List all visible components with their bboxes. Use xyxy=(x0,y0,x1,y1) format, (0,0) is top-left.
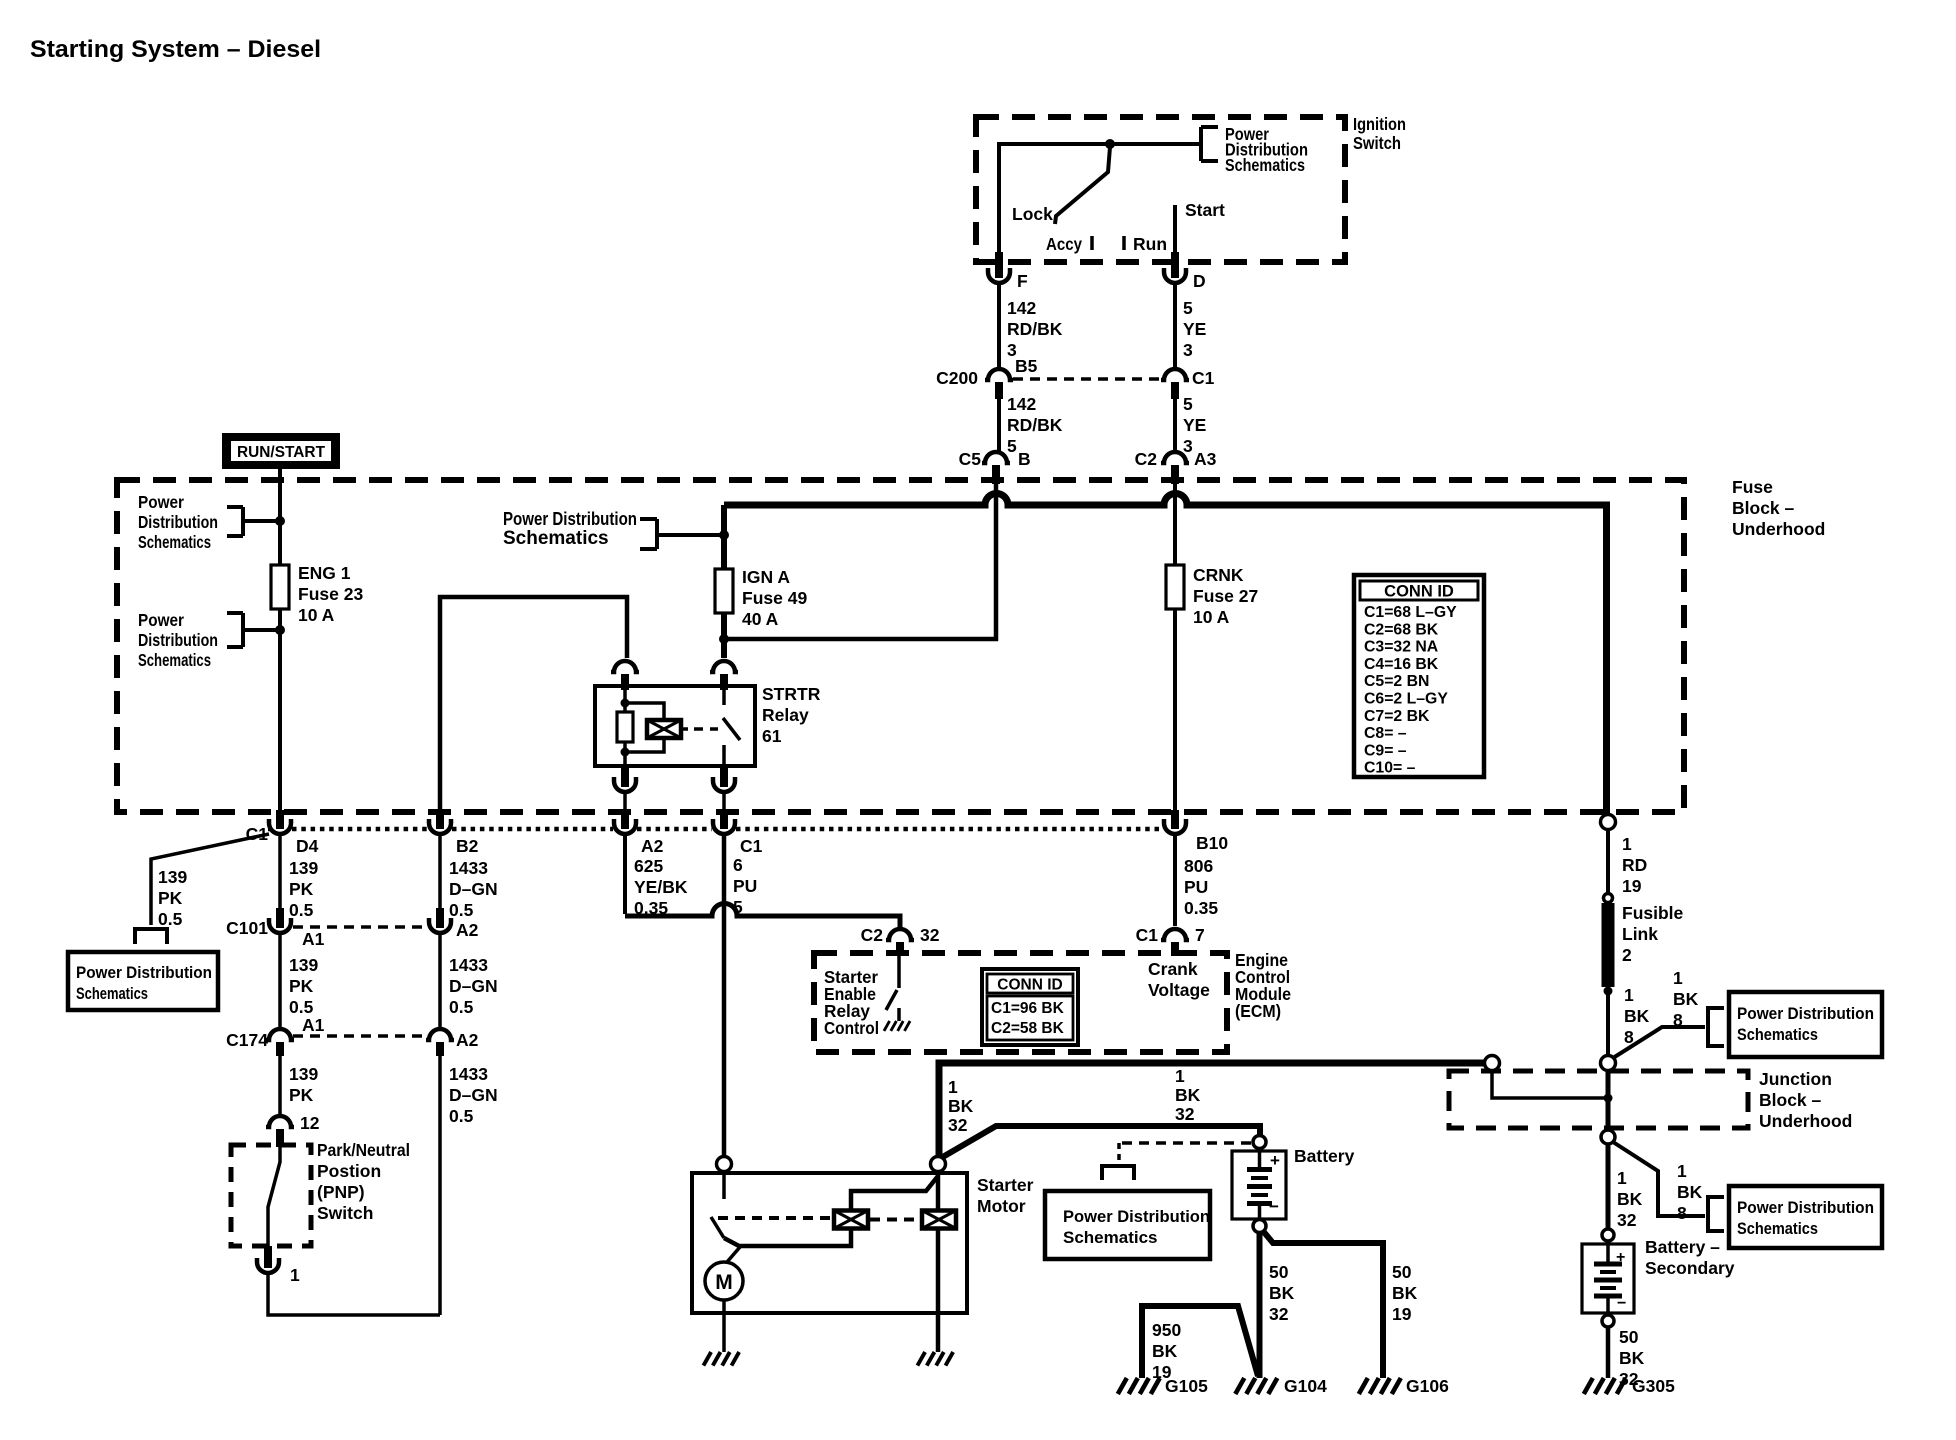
svg-text:Power Distribution: Power Distribution xyxy=(1737,1198,1874,1217)
wire C174 to PNP xyxy=(278,1056,282,1115)
svg-text:6: 6 xyxy=(733,855,743,875)
svg-text:C7=2 BK: C7=2 BK xyxy=(1364,708,1430,725)
svg-text:Battery –: Battery – xyxy=(1645,1237,1720,1257)
connector C2 (ECM) xyxy=(886,929,914,940)
wire ignition feed xyxy=(999,144,1201,262)
svg-text:D–GN: D–GN xyxy=(449,976,498,996)
svg-text:Underhood: Underhood xyxy=(1732,519,1825,539)
wire solenoid ground xyxy=(936,1228,941,1352)
svg-text:40 A: 40 A xyxy=(742,609,779,629)
node junction block left xyxy=(1485,1056,1500,1071)
wire PNP out xyxy=(268,1274,440,1315)
svg-text:Fuse: Fuse xyxy=(1732,477,1773,497)
svg-text:Control: Control xyxy=(824,1018,879,1038)
starter link dashes xyxy=(718,1216,832,1220)
wire relay C1 down xyxy=(722,792,726,810)
svg-text:BK: BK xyxy=(1152,1341,1178,1361)
pds bracket 6 xyxy=(135,929,167,944)
junction dot ENG1 top xyxy=(275,516,285,526)
connector 1 xyxy=(264,1246,272,1268)
svg-text:G105: G105 xyxy=(1165,1376,1208,1396)
svg-text:C6=2 L–GY: C6=2 L–GY xyxy=(1364,691,1448,708)
svg-text:B5: B5 xyxy=(1015,356,1038,376)
svg-text:PU: PU xyxy=(733,876,757,896)
svg-text:G106: G106 xyxy=(1406,1376,1449,1396)
svg-text:RD/BK: RD/BK xyxy=(1007,319,1063,339)
svg-text:C174: C174 xyxy=(226,1030,268,1050)
wire C101 to C174 left xyxy=(278,933,282,1028)
svg-text:BK: BK xyxy=(1269,1283,1295,1303)
battery2 wire top xyxy=(1606,1240,1610,1262)
svg-text:32: 32 xyxy=(1269,1304,1289,1324)
power distribution schematics bracket (ignition) xyxy=(1201,125,1218,129)
svg-text:Battery: Battery xyxy=(1294,1146,1355,1166)
node battery2 top xyxy=(1602,1229,1614,1241)
relay coil bypass xyxy=(625,703,664,720)
wire C101 to C174 right xyxy=(438,933,442,1028)
svg-text:C4=16 BK: C4=16 BK xyxy=(1364,656,1439,673)
svg-text:Fuse 23: Fuse 23 xyxy=(298,584,363,604)
ground starter solenoid xyxy=(917,1352,925,1366)
svg-text:Fuse 27: Fuse 27 xyxy=(1193,586,1258,606)
svg-text:Schematics: Schematics xyxy=(138,650,211,670)
svg-text:(ECM): (ECM) xyxy=(1235,1001,1281,1021)
svg-text:+: + xyxy=(1270,1151,1280,1170)
pds bracket 2 xyxy=(227,611,243,615)
svg-text:−: − xyxy=(1269,1197,1279,1216)
svg-text:Ignition: Ignition xyxy=(1353,114,1406,134)
svg-text:B2: B2 xyxy=(456,836,479,856)
relay out C1 pin xyxy=(720,766,728,787)
svg-text:50: 50 xyxy=(1392,1262,1412,1282)
svg-text:1: 1 xyxy=(1624,985,1634,1005)
junction dot relay feed xyxy=(719,634,729,644)
svg-text:(PNP): (PNP) xyxy=(317,1182,365,1202)
battery plates xyxy=(1247,1167,1272,1172)
svg-text:1: 1 xyxy=(1175,1066,1185,1086)
relay coil xbox xyxy=(647,720,681,738)
svg-text:PU: PU xyxy=(1184,877,1208,897)
svg-text:0.5: 0.5 xyxy=(449,900,474,920)
node battery negative xyxy=(1253,1220,1266,1233)
svg-text:Switch: Switch xyxy=(1353,133,1401,153)
svg-text:BK: BK xyxy=(1673,989,1699,1009)
connector A2 xyxy=(621,810,629,829)
connector D xyxy=(1164,268,1186,283)
svg-text:Schematics: Schematics xyxy=(1063,1228,1158,1247)
wire branch to pds 2 xyxy=(1613,1142,1705,1216)
svg-text:10 A: 10 A xyxy=(1193,607,1230,627)
svg-text:C2: C2 xyxy=(861,925,884,945)
power distribution schematics box (r2) xyxy=(1729,1186,1882,1248)
relay out A2 pin xyxy=(621,766,629,787)
svg-text:BK: BK xyxy=(1624,1006,1650,1026)
svg-text:C3=32 NA: C3=32 NA xyxy=(1364,639,1438,656)
wire relay A2 down xyxy=(623,792,627,810)
connector C101 A2 xyxy=(436,908,444,928)
svg-text:Power: Power xyxy=(138,492,184,512)
relay coil wire top xyxy=(623,690,627,712)
svg-text:0.5: 0.5 xyxy=(289,900,314,920)
svg-text:50: 50 xyxy=(1619,1327,1639,1347)
svg-text:32: 32 xyxy=(1617,1210,1637,1230)
relay box xyxy=(595,686,755,766)
fuse block bottom connector row xyxy=(268,827,271,832)
svg-text:Power Distribution: Power Distribution xyxy=(76,964,212,982)
fuse block underhood box xyxy=(117,480,1684,812)
svg-text:Schematics: Schematics xyxy=(1225,155,1305,175)
pds bracket 1 xyxy=(227,505,243,509)
junction block box xyxy=(1449,1071,1748,1128)
connector 12 xyxy=(266,1116,294,1127)
svg-text:B10: B10 xyxy=(1196,833,1228,853)
svg-text:Starting System – Diesel: Starting System – Diesel xyxy=(30,36,321,63)
relay link dashes xyxy=(694,727,718,731)
battery2 plates xyxy=(1594,1262,1622,1267)
connector B10 xyxy=(1171,810,1179,829)
svg-text:0.5: 0.5 xyxy=(449,1106,474,1126)
battery wire top xyxy=(1258,1148,1262,1167)
svg-text:PK: PK xyxy=(289,976,314,996)
ECM ground xyxy=(884,1021,890,1031)
svg-text:3: 3 xyxy=(1183,340,1193,360)
svg-text:BK: BK xyxy=(1677,1182,1703,1202)
svg-text:32: 32 xyxy=(1175,1104,1195,1124)
battery box xyxy=(1232,1151,1286,1219)
svg-text:2: 2 xyxy=(1622,945,1632,965)
connector F pin xyxy=(995,252,1003,278)
svg-text:19: 19 xyxy=(1622,876,1642,896)
relay switch lower stub xyxy=(722,745,726,766)
wire C1 down xyxy=(1173,399,1177,451)
svg-text:10 A: 10 A xyxy=(298,605,335,625)
wire 950 BK 19 xyxy=(1142,1306,1258,1378)
connector C200 B5 xyxy=(985,369,1013,380)
svg-text:BK: BK xyxy=(948,1096,974,1116)
svg-text:C5=2 BN: C5=2 BN xyxy=(1364,673,1429,690)
wire battery2 to G305 xyxy=(1606,1326,1611,1378)
junction dot IGN A xyxy=(719,530,729,540)
svg-text:A1: A1 xyxy=(302,1015,325,1035)
ground G305 xyxy=(1584,1378,1593,1394)
svg-text:625: 625 xyxy=(634,856,663,876)
wire junction to battery2 xyxy=(1606,1144,1611,1231)
svg-text:+: + xyxy=(1616,1249,1625,1266)
tick Accy xyxy=(1090,236,1094,250)
svg-text:0.5: 0.5 xyxy=(449,997,474,1017)
svg-text:C1: C1 xyxy=(1192,368,1215,388)
connector C1 (ECM) xyxy=(1161,929,1189,940)
svg-text:CRNK: CRNK xyxy=(1193,565,1244,585)
wire 6 PU down xyxy=(722,835,727,1156)
CONN ID table xyxy=(1354,575,1484,777)
starter wire to coil xyxy=(724,1228,851,1246)
svg-text:Schematics: Schematics xyxy=(76,985,148,1003)
power distribution schematics box (left) xyxy=(68,952,218,1010)
svg-text:32: 32 xyxy=(948,1115,968,1135)
RUN/START tag xyxy=(222,433,340,469)
svg-text:Schematics: Schematics xyxy=(503,528,609,549)
pds bracket 7 xyxy=(1708,1008,1724,1046)
svg-text:50: 50 xyxy=(1269,1262,1289,1282)
svg-text:PK: PK xyxy=(289,879,314,899)
heavy wire 1 BK 32 (starter to junction block) xyxy=(939,1063,1492,1164)
ignition switch blade xyxy=(1055,147,1110,224)
fusible link 2 xyxy=(1602,903,1615,987)
fuse CRNK xyxy=(1166,565,1184,609)
ignition switch box xyxy=(976,117,1345,262)
node fuse block output xyxy=(1601,815,1616,830)
wire C5 branch xyxy=(727,484,996,639)
ground starter motor xyxy=(703,1352,711,1366)
connector C1 xyxy=(720,810,728,829)
svg-text:IGN A: IGN A xyxy=(742,567,790,587)
svg-text:A1: A1 xyxy=(302,929,325,949)
svg-text:Junction: Junction xyxy=(1759,1069,1832,1089)
svg-text:F: F xyxy=(1017,271,1028,291)
svg-text:Run: Run xyxy=(1133,234,1167,254)
svg-text:1433: 1433 xyxy=(449,858,488,878)
svg-text:19: 19 xyxy=(1392,1304,1412,1324)
wire 1433 down xyxy=(438,1056,442,1315)
starter coil top wire xyxy=(851,1176,938,1211)
power distribution schematics box (r1) xyxy=(1729,992,1882,1057)
relay coil connector xyxy=(611,661,639,672)
svg-text:Motor: Motor xyxy=(977,1196,1026,1216)
svg-text:Fuse 49: Fuse 49 xyxy=(742,588,807,608)
junction dot ignition xyxy=(1105,139,1115,149)
connector C174 A2 xyxy=(426,1029,454,1040)
svg-text:RUN/START: RUN/START xyxy=(237,444,325,461)
svg-text:32: 32 xyxy=(920,925,940,945)
svg-text:Fusible: Fusible xyxy=(1622,903,1684,923)
svg-text:142: 142 xyxy=(1007,394,1036,414)
fuse IGN A xyxy=(715,569,733,613)
svg-text:D–GN: D–GN xyxy=(449,879,498,899)
svg-text:G305: G305 xyxy=(1632,1376,1675,1396)
junction dot jb xyxy=(1604,1094,1613,1103)
svg-text:BK: BK xyxy=(1617,1189,1643,1209)
node starter B+ xyxy=(931,1157,946,1172)
svg-text:M: M xyxy=(715,1271,733,1294)
svg-text:G104: G104 xyxy=(1284,1376,1327,1396)
ECM box xyxy=(814,953,1227,1052)
wire bracket2 xyxy=(243,628,280,632)
svg-text:C9= –: C9= – xyxy=(1364,742,1407,759)
ground G106 xyxy=(1359,1378,1368,1394)
connector C1/D4 xyxy=(276,810,284,829)
connector D pin xyxy=(1171,252,1179,278)
wire battery neg to G104 xyxy=(1257,1232,1263,1378)
svg-text:C2=58 BK: C2=58 BK xyxy=(991,1020,1065,1037)
svg-text:Power Distribution: Power Distribution xyxy=(503,509,637,529)
svg-text:Start: Start xyxy=(1185,200,1225,220)
wire B10 to ECM C1 xyxy=(1173,835,1177,926)
wire A2 down xyxy=(623,835,627,914)
wire B2 up xyxy=(440,597,627,810)
wire RUN/START to fuse xyxy=(278,469,282,565)
wire ENG1 down xyxy=(278,609,282,812)
node starter solenoid xyxy=(717,1157,732,1172)
svg-text:CONN ID: CONN ID xyxy=(997,977,1062,994)
svg-text:A2: A2 xyxy=(641,836,664,856)
pds bracket 8 xyxy=(1708,1197,1724,1231)
svg-text:Voltage: Voltage xyxy=(1148,980,1210,1000)
wire D down xyxy=(1173,283,1177,368)
fuse ENG1 xyxy=(271,565,289,609)
svg-text:8: 8 xyxy=(1673,1010,1683,1030)
svg-text:C2: C2 xyxy=(1135,449,1158,469)
wire motor ground xyxy=(722,1300,726,1352)
connector C200 C1 xyxy=(1161,369,1189,380)
motor wire xyxy=(727,1247,740,1262)
starter switch stub xyxy=(722,1172,726,1199)
connector C174 A1 xyxy=(266,1029,294,1040)
svg-text:Accy: Accy xyxy=(1046,234,1082,254)
svg-text:Starter: Starter xyxy=(977,1175,1034,1195)
svg-text:D–GN: D–GN xyxy=(449,1085,498,1105)
node junction top xyxy=(1601,1056,1616,1071)
relay coil wire bottom xyxy=(623,742,627,766)
starter motor box xyxy=(692,1173,967,1313)
relay coil dot top xyxy=(621,699,630,708)
wire bracket1 xyxy=(243,519,280,523)
dashed line C101 xyxy=(293,925,427,929)
ECM switch blade xyxy=(897,956,901,988)
wire link to junction xyxy=(1606,991,1610,1056)
svg-text:C1: C1 xyxy=(740,836,763,856)
junction dot ENG1 bottom xyxy=(275,625,285,635)
svg-text:5: 5 xyxy=(1183,298,1193,318)
connector F xyxy=(988,268,1010,283)
wire C1 to C101 xyxy=(278,835,282,908)
heavy wire battery feed xyxy=(941,1126,1260,1158)
svg-text:139: 139 xyxy=(289,858,318,878)
wire Start xyxy=(1173,205,1177,262)
wire B+ through box xyxy=(936,1172,941,1211)
connector C5 B xyxy=(982,452,1010,463)
pds bracket 3 xyxy=(640,517,657,521)
node battery2 bottom xyxy=(1602,1315,1614,1327)
svg-text:A2: A2 xyxy=(456,1030,479,1050)
svg-text:−: − xyxy=(1617,1295,1626,1312)
svg-text:61: 61 xyxy=(762,726,782,746)
dashed wire to battery xyxy=(1122,1141,1252,1145)
wire B5 down xyxy=(997,399,1001,451)
svg-text:RD/BK: RD/BK xyxy=(1007,415,1063,435)
svg-text:B: B xyxy=(1018,449,1031,469)
PNP blade xyxy=(268,1147,280,1246)
svg-text:1: 1 xyxy=(290,1265,300,1285)
tick Run xyxy=(1122,236,1126,250)
starter hold xbox xyxy=(922,1211,956,1229)
svg-text:1: 1 xyxy=(1673,968,1683,988)
wire IGN A top xyxy=(721,505,727,569)
svg-text:C101: C101 xyxy=(226,918,268,938)
svg-text:C200: C200 xyxy=(936,368,978,388)
svg-text:C1: C1 xyxy=(1136,925,1159,945)
wire CRNK top xyxy=(1173,484,1177,565)
wire 139 PK branch xyxy=(151,834,269,925)
svg-text:Schematics: Schematics xyxy=(1737,1025,1818,1044)
svg-text:806: 806 xyxy=(1184,856,1213,876)
svg-text:5: 5 xyxy=(1183,394,1193,414)
svg-text:PK: PK xyxy=(289,1085,314,1105)
svg-text:BK: BK xyxy=(1175,1085,1201,1105)
connector C2 A3 xyxy=(1161,452,1189,463)
svg-text:STRTR: STRTR xyxy=(762,684,821,704)
svg-text:CONN ID: CONN ID xyxy=(1384,583,1454,601)
pds bracket 5 xyxy=(1102,1166,1134,1180)
svg-text:Distribution: Distribution xyxy=(138,512,218,532)
svg-text:D4: D4 xyxy=(296,836,319,856)
CONN ID table (ECM) xyxy=(982,969,1078,1045)
svg-text:A3: A3 xyxy=(1194,449,1217,469)
svg-text:C1=96 BK: C1=96 BK xyxy=(991,1000,1065,1017)
svg-text:Schematics: Schematics xyxy=(138,532,211,552)
svg-text:Secondary: Secondary xyxy=(1645,1258,1735,1278)
svg-text:Crank: Crank xyxy=(1148,959,1198,979)
relay switch blade xyxy=(723,718,740,740)
node junction bottom xyxy=(1601,1130,1615,1144)
svg-text:Distribution: Distribution xyxy=(138,630,218,650)
connector B2 xyxy=(436,810,444,829)
node fusible link top xyxy=(1604,894,1613,903)
wire B2 to C101 A2 xyxy=(438,835,442,908)
wire bracket3 xyxy=(657,533,724,537)
starter switch blade xyxy=(711,1217,724,1238)
svg-text:A2: A2 xyxy=(456,920,479,940)
svg-text:Power Distribution: Power Distribution xyxy=(1063,1207,1210,1226)
node battery positive xyxy=(1253,1136,1266,1149)
svg-text:950: 950 xyxy=(1152,1320,1181,1340)
svg-text:BK: BK xyxy=(1619,1348,1645,1368)
svg-text:Relay: Relay xyxy=(762,705,809,725)
svg-text:BK: BK xyxy=(1392,1283,1418,1303)
svg-text:Switch: Switch xyxy=(317,1203,373,1223)
svg-text:Lock: Lock xyxy=(1012,204,1053,224)
svg-text:YE: YE xyxy=(1183,319,1206,339)
svg-text:7: 7 xyxy=(1195,925,1205,945)
svg-text:Power Distribution: Power Distribution xyxy=(1737,1004,1874,1023)
svg-text:C8= –: C8= – xyxy=(1364,725,1407,742)
battery secondary box xyxy=(1582,1244,1634,1313)
wire F down xyxy=(997,283,1001,368)
pds dashes down xyxy=(1117,1143,1121,1162)
svg-text:C1=68 L–GY: C1=68 L–GY xyxy=(1364,604,1457,621)
svg-text:Postion: Postion xyxy=(317,1161,381,1181)
relay contact connector xyxy=(710,661,738,672)
svg-text:PK: PK xyxy=(158,888,183,908)
svg-text:1433: 1433 xyxy=(449,1064,488,1084)
svg-text:1: 1 xyxy=(1622,834,1632,854)
svg-text:0.5: 0.5 xyxy=(289,997,314,1017)
svg-text:YE: YE xyxy=(1183,415,1206,435)
svg-text:Block –: Block – xyxy=(1759,1090,1822,1110)
motor M xyxy=(705,1262,743,1300)
power distribution schematics box (mid) xyxy=(1045,1191,1210,1259)
svg-text:Park/Neutral: Park/Neutral xyxy=(317,1140,410,1160)
wire CRNK down xyxy=(1173,609,1177,810)
svg-text:0.5: 0.5 xyxy=(158,909,183,929)
svg-text:RD: RD xyxy=(1622,855,1647,875)
svg-text:3: 3 xyxy=(1183,436,1193,456)
relay coil dot bottom xyxy=(621,748,630,757)
svg-text:Power: Power xyxy=(138,610,184,630)
dashed line C174 xyxy=(293,1034,427,1038)
svg-text:5: 5 xyxy=(1007,436,1017,456)
svg-text:0.35: 0.35 xyxy=(1184,898,1218,918)
